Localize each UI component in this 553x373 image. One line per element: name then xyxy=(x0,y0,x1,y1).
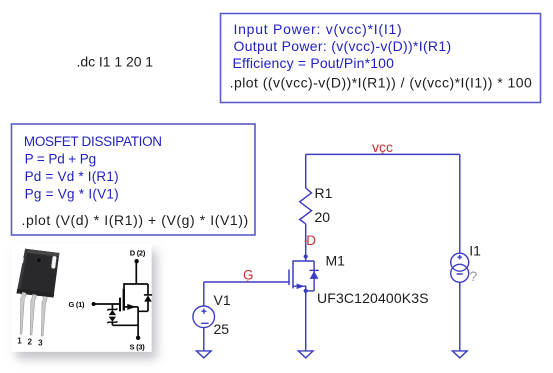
mosfet M1 body diode triangle xyxy=(310,271,319,279)
ground below V1 xyxy=(196,351,211,358)
svg-text:Efficiency = Pout/Pin*100: Efficiency = Pout/Pin*100 xyxy=(233,55,395,71)
net label D xyxy=(305,233,317,248)
voltage source V1 circle xyxy=(193,306,215,328)
text: Pg = Vg * I(V1) xyxy=(25,187,119,202)
wire vcc top rail xyxy=(306,153,460,155)
cascode symbol: label D (2) xyxy=(130,248,146,257)
cascode symbol: gate clamp wire xyxy=(112,304,138,325)
mosfet M1 channel bar xyxy=(292,260,294,288)
svg-text:P = Pd + Pg: P = Pd + Pg xyxy=(25,152,96,167)
label I1 xyxy=(469,242,481,258)
pin number 2 xyxy=(27,338,32,347)
junction dot at drain xyxy=(304,254,308,258)
svg-text:G: G xyxy=(243,268,254,283)
photo panel with drop shadow xyxy=(11,244,151,352)
wire vcc rail to I1 xyxy=(459,154,461,253)
cascode symbol: body diode triangle xyxy=(144,295,152,301)
cascode symbol: label G (1) xyxy=(68,300,85,309)
net label vcc xyxy=(372,139,393,155)
svg-text:.dc I1 1 20 1: .dc I1 1 20 1 xyxy=(77,53,154,69)
text: efficiency formula xyxy=(233,55,395,71)
label UF3C120400K3S xyxy=(317,290,429,306)
package mounting hole xyxy=(36,258,41,263)
value ? placeholder xyxy=(470,268,478,284)
mosfet M1 body diode bar xyxy=(309,269,318,271)
svg-text:Input Power: v(vcc)*I(I1): Input Power: v(vcc)*I(I1) xyxy=(234,21,403,37)
wire V1 to ground xyxy=(203,328,205,351)
cascode symbol: clamp diode lower triangle xyxy=(109,317,116,322)
TO-247 package body xyxy=(17,249,60,298)
cascode symbol: drain wire xyxy=(124,262,148,284)
cascode symbol: source terminal dot xyxy=(136,336,140,340)
wire R1 to MOSFET drain xyxy=(305,224,307,261)
svg-text:V1: V1 xyxy=(214,292,231,308)
svg-text:20: 20 xyxy=(315,209,331,225)
cascode symbol: clamp diode upper triangle xyxy=(109,310,116,315)
package slot xyxy=(51,256,57,269)
wire MOSFET source to ground xyxy=(305,291,307,351)
svg-text:Pd = Vd * I(R1): Pd = Vd * I(R1) xyxy=(25,169,119,184)
cascode symbol: channel bar xyxy=(123,289,125,311)
comment box (power/efficiency) border xyxy=(221,14,541,103)
svg-text:3: 3 xyxy=(38,339,43,348)
spice directive .dc sweep text xyxy=(77,53,154,69)
comment box (MOSFET dissipation) border xyxy=(12,124,256,235)
cascode symbol: gate bar xyxy=(119,298,121,312)
cascode symbol: drain terminal dot xyxy=(134,259,138,263)
svg-text:D: D xyxy=(306,233,316,248)
mosfet M1 source line with arrow xyxy=(293,284,306,291)
text: Pd = Vd * I(R1) xyxy=(25,169,119,184)
pin number 1 xyxy=(17,337,22,346)
wire gate from V1 xyxy=(204,281,289,283)
package leg 3 xyxy=(41,296,47,336)
wire from vcc rail to R1 xyxy=(305,154,307,188)
package leg 2 xyxy=(30,294,36,335)
svg-text:Output Power: (v(vcc)-v(D))*I(: Output Power: (v(vcc)-v(D))*I(R1) xyxy=(234,38,452,54)
value 25 xyxy=(214,321,230,337)
net label G xyxy=(243,268,254,283)
wire I1 to ground xyxy=(459,282,461,351)
package leg 1 xyxy=(20,292,26,334)
resistor R1 xyxy=(300,188,312,224)
svg-text:D (2): D (2) xyxy=(130,248,146,257)
svg-text:M1: M1 xyxy=(326,252,346,268)
cascode symbol: label S (3) xyxy=(129,343,145,352)
spice directive .plot dissipation xyxy=(22,212,249,228)
mosfet M1 source bottom bar xyxy=(306,290,314,292)
svg-text:R1: R1 xyxy=(315,185,333,201)
svg-text:.plot ((v(vcc)-v(D))*I(R1)) /: .plot ((v(vcc)-v(D))*I(R1)) / (v(vcc)*I(… xyxy=(230,75,533,91)
svg-text:1: 1 xyxy=(17,337,22,346)
package left notch xyxy=(19,258,23,263)
cascode symbol: body diode cathode bar xyxy=(144,294,152,296)
svg-text:2: 2 xyxy=(27,338,32,347)
ground below I1 xyxy=(452,351,467,358)
svg-text:G (1): G (1) xyxy=(68,300,85,309)
current source I1 circles xyxy=(451,253,469,282)
label M1 xyxy=(326,252,346,268)
cascode symbol: gate terminal dot xyxy=(92,302,96,306)
wire V1 to gate corner xyxy=(203,282,205,306)
text: input power formula xyxy=(234,21,403,37)
cascode symbol: source vertical wire xyxy=(137,307,139,338)
pin number 3 xyxy=(38,339,43,348)
svg-text:S (3): S (3) xyxy=(129,343,145,352)
svg-text:MOSFET DISSIPATION: MOSFET DISSIPATION xyxy=(24,134,162,149)
ground below MOSFET xyxy=(298,351,313,358)
cascode symbol: body diode branch wire xyxy=(138,284,148,311)
cascode symbol: clamp zener bar upper xyxy=(107,309,117,311)
text: output power formula xyxy=(234,38,452,54)
text: P = Pd + Pg xyxy=(25,152,96,167)
value 20 xyxy=(315,209,331,225)
svg-text:25: 25 xyxy=(214,321,230,337)
text: MOSFET DISSIPATION title xyxy=(24,134,162,149)
svg-text:vcc: vcc xyxy=(372,139,393,155)
cascode symbol: drain stub to channel xyxy=(123,283,125,288)
cascode symbol: gate lead xyxy=(94,303,119,305)
mosfet M1 body diode branch xyxy=(313,261,315,291)
svg-text:Pg = Vg * I(V1): Pg = Vg * I(V1) xyxy=(25,187,119,202)
mosfet M1 gate bar xyxy=(288,270,290,286)
svg-text:?: ? xyxy=(470,268,478,284)
svg-text:.plot (V(d) * I(R1)) + (V(g) *: .plot (V(d) * I(R1)) + (V(g) * I(V1)) xyxy=(22,212,249,228)
label R1 xyxy=(315,185,333,201)
mosfet M1 top bar xyxy=(293,260,314,262)
junction dot at source xyxy=(304,289,308,293)
cascode symbol: clamp zener bar lower xyxy=(107,321,117,323)
svg-text:UF3C120400K3S: UF3C120400K3S xyxy=(317,290,429,306)
spice directive .plot efficiency xyxy=(230,75,533,91)
cascode symbol: source line with arrow xyxy=(125,304,138,310)
svg-text:I1: I1 xyxy=(469,242,481,258)
label V1 xyxy=(214,292,231,308)
